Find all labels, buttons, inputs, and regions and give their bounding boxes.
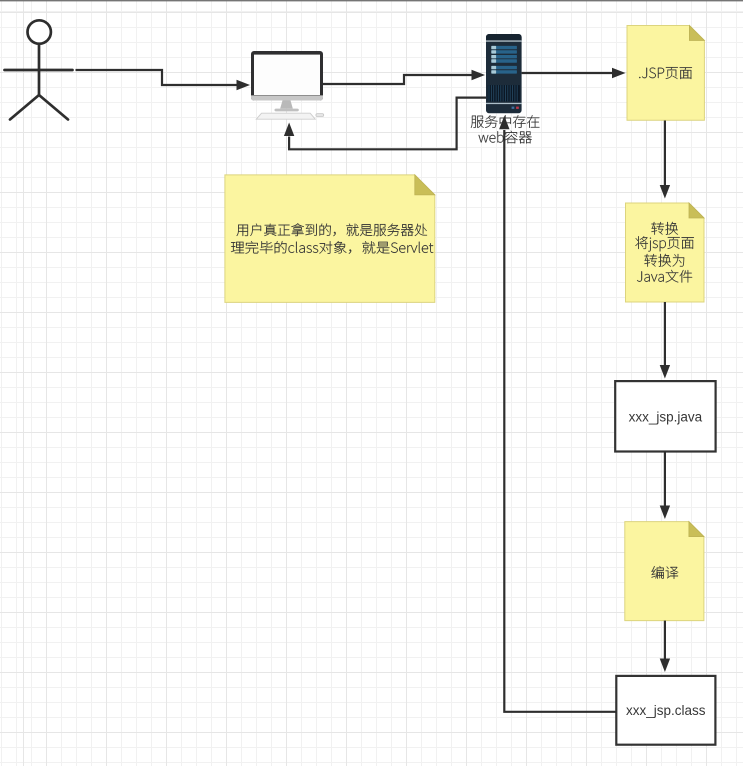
window top border line <box>0 0 743 1</box>
svg-text:xxx_jsp.java: xxx_jsp.java <box>629 410 703 425</box>
label 将jsp页面 <box>635 236 693 251</box>
label web容器 <box>479 131 532 144</box>
arrowhead up into monitor <box>284 123 294 137</box>
arrowhead into convert note <box>660 185 670 199</box>
arrowhead into server <box>472 70 486 80</box>
arrowhead up into server <box>499 116 509 130</box>
box xxx_jsp.class <box>616 676 715 745</box>
label 用户真正拿到的，就是服务器处 <box>237 223 428 236</box>
arrowhead into compile note <box>660 506 670 520</box>
server web-container tower <box>486 34 522 113</box>
note JSP页面 <box>627 26 704 121</box>
wire class box to server <box>504 130 616 712</box>
wire convert note to java box <box>664 302 666 365</box>
label 转换为 <box>644 254 684 267</box>
box xxx_jsp.java <box>615 381 715 451</box>
arrowhead into class box <box>660 659 670 673</box>
svg-text:xxx_jsp.class: xxx_jsp.class <box>626 703 706 718</box>
note 编译 <box>625 522 704 621</box>
wire actor to monitor <box>76 70 237 85</box>
note 转换 <box>626 203 705 302</box>
arrowhead into monitor <box>237 80 251 90</box>
wire compile note to class box <box>664 621 666 659</box>
wire JSP note to convert note <box>664 121 666 186</box>
label 理完毕的class对象，就是Servlet <box>231 241 433 254</box>
arrowhead into JSP note <box>612 68 626 78</box>
actor user <box>5 20 73 119</box>
arrowhead into java box <box>660 365 670 379</box>
label 服务中存在 <box>471 115 540 128</box>
label 编译 <box>652 566 679 579</box>
wire server to monitor return <box>289 98 486 150</box>
wire monitor to server <box>323 75 472 84</box>
label Java文件 <box>637 270 692 283</box>
label .JSP页面 <box>639 67 692 79</box>
wire server to JSP note <box>522 72 612 74</box>
monitor PC <box>251 51 324 119</box>
label 转换 <box>651 222 678 235</box>
wire java box to compile note <box>664 452 666 506</box>
note 用户真正拿到的 servlet explanation <box>225 175 435 303</box>
